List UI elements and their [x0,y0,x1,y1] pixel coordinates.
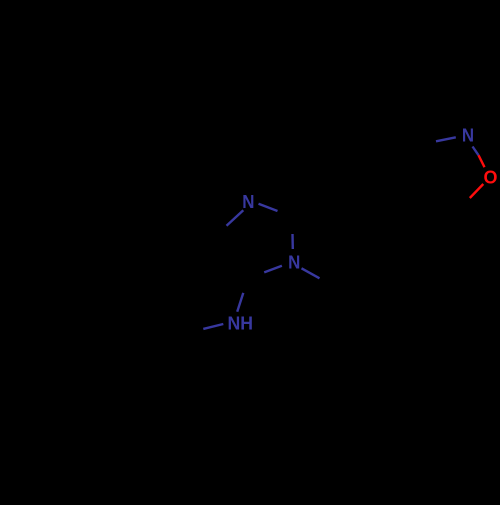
wire: bond N4-O blue half [473,147,479,156]
wire: bond half C2 to N3 (vertical) [291,234,294,249]
wire: bond half O to C (down-left) [470,184,484,198]
wire: bond half N1 to ring C (lower-left) [227,210,244,226]
svg-text:N: N [288,252,300,272]
svg-text:O: O [484,168,498,188]
wire: bond half isoxazole C3 to N4 [436,137,456,141]
wire: bond half N3 to N-methyl (right-down) [302,268,320,278]
wire: bond N4-O red half [479,155,485,167]
svg-text:N: N [462,126,474,146]
wire: bond half NH to methyl (left-down) [203,324,223,329]
wire: bond half N3 to C3 (left) [264,266,282,273]
wire: bond half N1 to C2 (right) [259,204,278,211]
svg-text:N: N [242,192,254,212]
wire: bond half NH to C3 (up-right) [237,293,243,312]
svg-text:NH: NH [228,313,254,333]
